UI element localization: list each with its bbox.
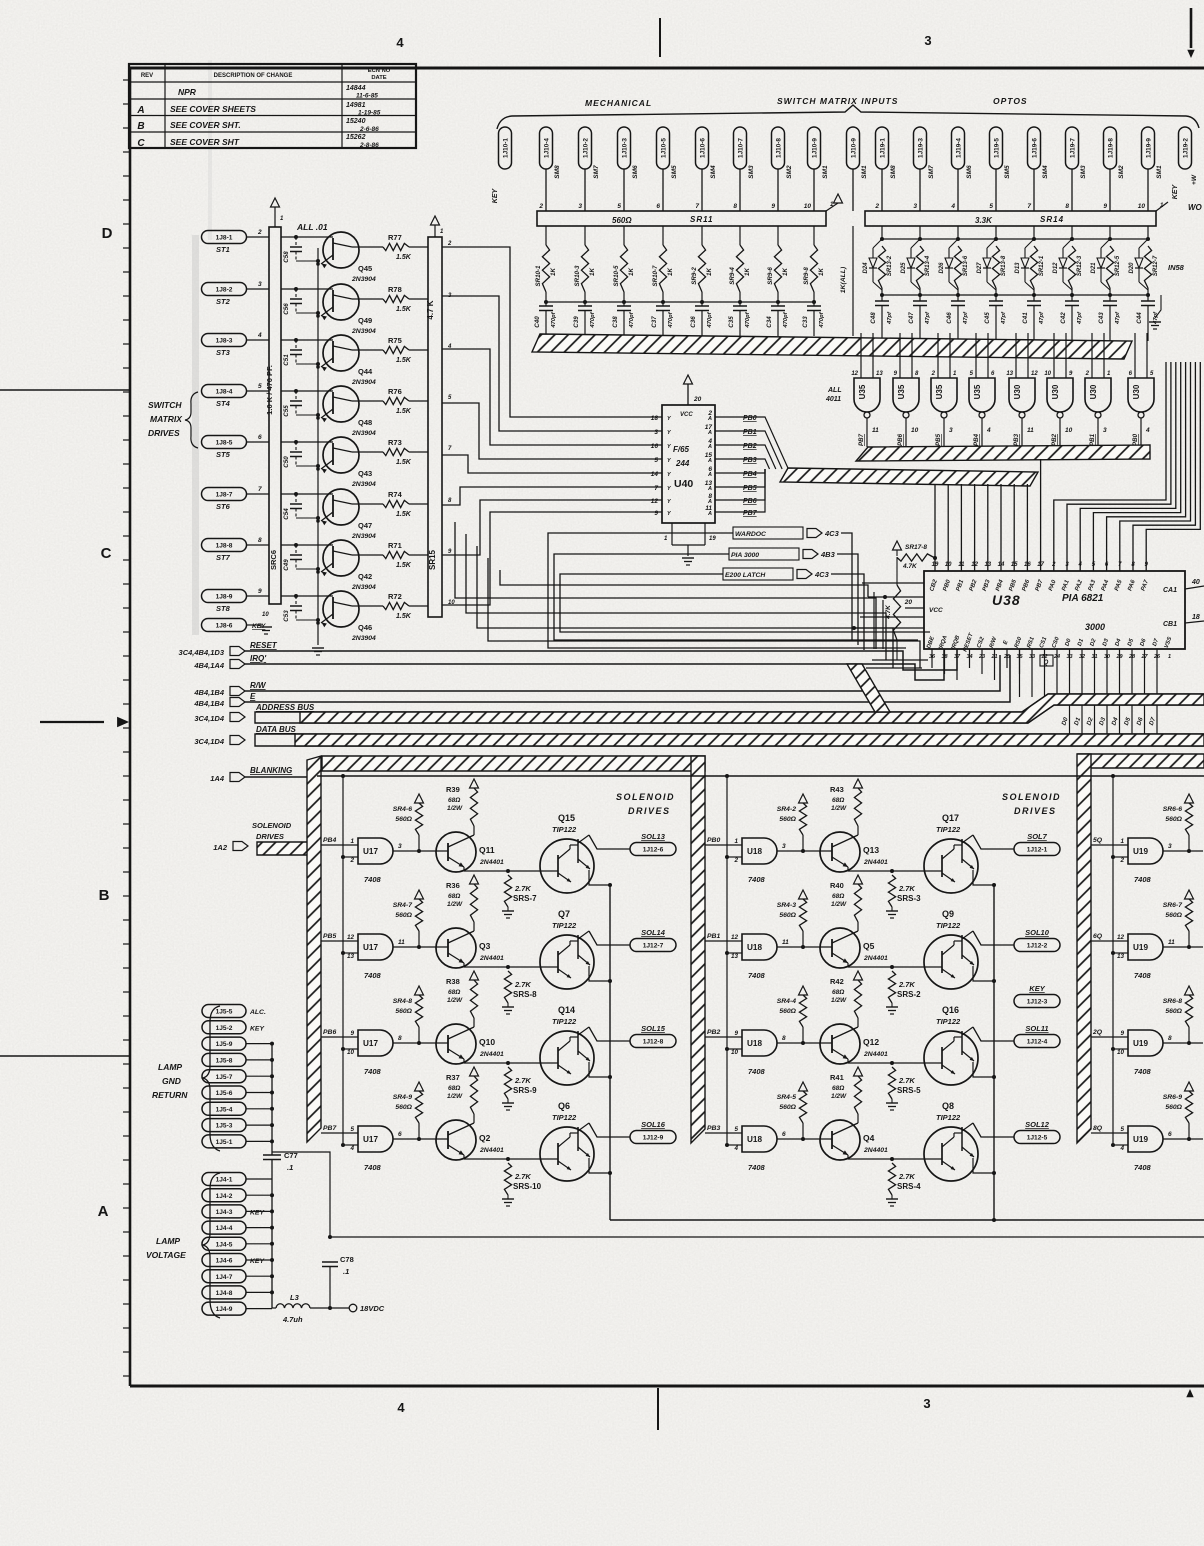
svg-text:1: 1 <box>734 838 738 845</box>
svg-text:2.7K: 2.7K <box>898 1076 915 1085</box>
svg-text:3C4,4B4,1D3: 3C4,4B4,1D3 <box>179 648 225 657</box>
svg-text:SR9-8: SR9-8 <box>803 267 810 285</box>
svg-text:D13: D13 <box>1015 262 1021 274</box>
svg-text:470pf: 470pf <box>551 311 557 328</box>
wire output <box>973 835 1014 849</box>
svg-text:Q49: Q49 <box>358 316 372 325</box>
svg-text:ST2: ST2 <box>216 297 231 306</box>
connector 1J5-4 <box>202 1102 246 1115</box>
svg-text:6: 6 <box>782 1131 786 1138</box>
svg-text:1J10-1: 1J10-1 <box>502 138 509 158</box>
svg-text:ST5: ST5 <box>216 450 231 459</box>
svg-text:SM6: SM6 <box>632 165 639 179</box>
wire <box>246 434 269 442</box>
svg-text:1J5-3: 1J5-3 <box>216 1123 233 1130</box>
svg-text:1J5-9: 1J5-9 <box>216 1041 233 1048</box>
svg-text:15240: 15240 <box>346 118 366 125</box>
connector 1J19-3 <box>914 127 936 179</box>
connector 1J10-8 <box>772 127 794 179</box>
wire <box>1013 484 1015 571</box>
wire <box>737 469 765 487</box>
svg-text:2N3904: 2N3904 <box>351 533 376 540</box>
bus ADDRESS BUS (hatched) <box>255 694 1204 723</box>
svg-text:1J4-6: 1J4-6 <box>216 1258 233 1265</box>
svg-text:PB7: PB7 <box>323 1125 337 1132</box>
svg-text:2N4401: 2N4401 <box>863 859 888 866</box>
wire <box>1109 169 1111 211</box>
resistor R76 1.5K <box>352 387 452 415</box>
svg-text:SM2: SM2 <box>786 165 793 179</box>
signal flag DATA BUS <box>194 725 296 746</box>
svg-text:12: 12 <box>731 934 739 941</box>
gate U35 (4011) <box>893 333 919 418</box>
resistor R74 1.5K <box>352 490 452 518</box>
svg-text:10: 10 <box>1138 203 1146 210</box>
svg-text:2.7K: 2.7K <box>898 980 915 989</box>
svg-text:1J8-5: 1J8-5 <box>216 440 233 447</box>
resistor SR10-3 1K <box>574 226 596 292</box>
wire base <box>281 595 333 597</box>
svg-text:3: 3 <box>924 33 931 48</box>
svg-text:2N4401: 2N4401 <box>479 1147 504 1154</box>
svg-text:DRIVES: DRIVES <box>148 428 180 438</box>
wire <box>464 966 558 968</box>
transistor Q17 TIP122 <box>924 813 994 893</box>
svg-text:5: 5 <box>617 203 621 210</box>
svg-text:RESET: RESET <box>250 641 278 650</box>
svg-text:470pf: 470pf <box>668 311 674 328</box>
svg-text:7408: 7408 <box>1134 875 1152 884</box>
svg-text:SOL11: SOL11 <box>1025 1024 1048 1033</box>
wire gate output <box>1013 418 1034 447</box>
capacitor C78 .1 <box>322 1255 354 1310</box>
svg-text:C38: C38 <box>612 316 619 328</box>
svg-text:REV: REV <box>141 73 153 79</box>
svg-text:B: B <box>137 121 144 132</box>
svg-text:1K(ALL): 1K(ALL) <box>840 266 847 293</box>
wire row input 8Q <box>1091 1125 1128 1133</box>
svg-text:1/2W: 1/2W <box>447 1093 463 1100</box>
wire <box>464 870 558 872</box>
gate U19 7408 <box>1128 838 1172 884</box>
U38 pin D5 <box>1127 637 1136 660</box>
connector 1J8-8 <box>202 539 247 563</box>
svg-text:Q3: Q3 <box>479 941 491 951</box>
wire output <box>589 1123 630 1137</box>
svg-text:BLANKING: BLANKING <box>250 766 292 775</box>
junction CB2 / SR17-8 <box>933 556 937 560</box>
U38 pin 16 PB6 <box>1022 562 1032 592</box>
svg-text:SRS-3: SRS-3 <box>897 894 921 903</box>
svg-text:7408: 7408 <box>364 875 382 884</box>
U38 pin 6 PA4 <box>1101 562 1111 592</box>
svg-text:U19: U19 <box>1133 1039 1148 1048</box>
U38 pin 9 PA7 <box>1141 562 1151 592</box>
svg-text:SWITCH MATRIX INPUTS: SWITCH MATRIX INPUTS <box>777 96 898 106</box>
svg-text:4B4,1B4: 4B4,1B4 <box>193 699 224 708</box>
svg-text:U18: U18 <box>747 1135 762 1144</box>
PIA U38 6821 <box>924 571 1185 649</box>
connector 1J12-3 KEY <box>1014 984 1060 1008</box>
wire <box>1040 459 1042 571</box>
signal flag ADDRESS BUS <box>194 703 315 723</box>
svg-text:7: 7 <box>654 485 658 492</box>
svg-text:U17: U17 <box>363 1039 378 1048</box>
svg-text:A: A <box>707 486 712 492</box>
resistor SRS-8 2.7K <box>502 965 537 1014</box>
wire <box>1031 649 1033 697</box>
svg-text:6: 6 <box>1168 1131 1172 1138</box>
svg-text:SOL13: SOL13 <box>641 832 666 841</box>
svg-text:4: 4 <box>950 203 955 210</box>
resistor SR13-2 1K <box>878 246 893 288</box>
svg-text:PB1: PB1 <box>707 933 720 940</box>
resistor network SR15 4.7K <box>426 237 442 617</box>
wire <box>341 951 358 960</box>
svg-text:C42: C42 <box>1060 312 1067 324</box>
wire PA bundle <box>1107 362 1186 571</box>
svg-text:1K: 1K <box>818 268 825 276</box>
svg-text:10: 10 <box>347 1049 355 1056</box>
U40 pin 6 PB4 <box>707 466 757 478</box>
diode D21 <box>1091 237 1112 290</box>
wire <box>701 169 703 211</box>
svg-text:PB1: PB1 <box>1089 433 1096 446</box>
U38 pin 13 PB3 <box>982 562 992 592</box>
svg-text:1J12-2: 1J12-2 <box>1027 943 1048 950</box>
svg-text:560Ω: 560Ω <box>395 912 412 919</box>
svg-text:4.7uh: 4.7uh <box>282 1315 303 1324</box>
svg-text:47pf: 47pf <box>887 311 893 325</box>
wire <box>974 484 976 571</box>
svg-text:SM7: SM7 <box>928 165 935 179</box>
wire <box>701 292 703 302</box>
svg-text:1J4-2: 1J4-2 <box>216 1193 233 1200</box>
svg-text:PB2: PB2 <box>1051 433 1058 446</box>
svg-text:1/2W: 1/2W <box>447 901 463 908</box>
svg-text:R76: R76 <box>388 387 402 396</box>
wire <box>777 169 779 211</box>
wire base <box>281 493 333 495</box>
diode D27 <box>977 237 998 290</box>
connector 1J4-9 <box>202 1302 246 1315</box>
svg-text:13: 13 <box>1006 371 1013 377</box>
transistor Q42 2N3904 <box>316 540 376 591</box>
svg-text:CA1: CA1 <box>1163 587 1177 594</box>
svg-text:47pf: 47pf <box>1077 311 1083 325</box>
svg-text:4B4,1B4: 4B4,1B4 <box>193 688 224 697</box>
svg-text:7408: 7408 <box>1134 1163 1152 1172</box>
svg-text:1J4-8: 1J4-8 <box>216 1290 233 1297</box>
svg-text:KEY: KEY <box>250 1258 265 1265</box>
svg-text:10: 10 <box>731 1049 739 1056</box>
svg-text:13: 13 <box>731 953 739 960</box>
diode D26 <box>939 237 960 290</box>
gate U30 (4011) <box>1085 333 1111 418</box>
wire <box>1044 649 1046 697</box>
capacitor C33 470pf <box>802 300 825 336</box>
signal flag BLANKING <box>210 766 292 783</box>
svg-text:1K: 1K <box>667 268 674 276</box>
svg-text:1J10-8: 1J10-8 <box>775 138 782 158</box>
wire <box>554 554 918 640</box>
wire <box>995 169 997 211</box>
svg-text:1J8-7: 1J8-7 <box>216 492 233 499</box>
svg-text:C46: C46 <box>946 312 953 324</box>
svg-text:SM8: SM8 <box>554 165 561 179</box>
capacitor C56 .01 <box>283 287 320 315</box>
connector 1J10-9 <box>808 127 830 179</box>
svg-text:MATRIX: MATRIX <box>150 414 183 424</box>
svg-text:PB7: PB7 <box>743 510 758 517</box>
capacitor C42 47pf <box>1060 288 1083 341</box>
wire gate output <box>973 418 991 447</box>
svg-text:C48: C48 <box>870 312 877 324</box>
svg-text:2N4401: 2N4401 <box>863 955 888 962</box>
svg-text:Q48: Q48 <box>358 418 372 427</box>
connector 1J12-2 SOL10 <box>1014 928 1060 952</box>
wire <box>246 332 269 340</box>
svg-text:LAMP: LAMP <box>156 1236 180 1246</box>
capacitor C45 47pf <box>984 288 1007 341</box>
resistor SR17-8 4.7K <box>893 541 935 570</box>
connector 1J8-2 <box>202 283 247 307</box>
svg-text:7: 7 <box>695 203 699 210</box>
wire <box>464 1062 558 1064</box>
svg-text:1K: 1K <box>550 268 557 276</box>
resistor SR4-7 560 <box>393 890 424 949</box>
svg-text:1J4-5: 1J4-5 <box>216 1241 233 1248</box>
bus solenoid frame left bank2 (hatched) <box>691 756 705 1143</box>
svg-text:470pf: 470pf <box>783 311 789 328</box>
svg-text:12: 12 <box>1117 934 1125 941</box>
svg-text:4: 4 <box>257 332 262 339</box>
svg-text:SEE COVER SHT.: SEE COVER SHT. <box>170 120 241 130</box>
wire <box>246 1108 272 1110</box>
svg-text:4B3: 4B3 <box>820 550 836 559</box>
wire <box>1006 649 1008 668</box>
svg-text:SRS-9: SRS-9 <box>513 1086 537 1095</box>
svg-text:C: C <box>101 545 112 562</box>
svg-text:1.5K: 1.5K <box>396 459 412 466</box>
wire <box>777 850 832 852</box>
svg-text:1/2W: 1/2W <box>447 805 463 812</box>
svg-text:1/2W: 1/2W <box>447 997 463 1004</box>
U38 pin D0 <box>1064 637 1072 660</box>
svg-text:SR4-9: SR4-9 <box>393 1094 412 1101</box>
svg-text:SR6-7: SR6-7 <box>1163 902 1183 909</box>
wire D7 <box>1148 649 1157 736</box>
svg-text:7: 7 <box>258 486 262 493</box>
svg-text:A: A <box>707 444 712 450</box>
U40 pin 8 PB6 <box>707 493 757 505</box>
svg-text:WO: WO <box>1188 203 1203 212</box>
transistor Q13 2N4401 <box>820 832 888 872</box>
wire <box>393 946 448 948</box>
zone divider B/A <box>0 1055 130 1057</box>
svg-text:68Ω: 68Ω <box>448 1085 460 1092</box>
wire <box>1163 946 1203 948</box>
svg-text:7408: 7408 <box>364 1067 382 1076</box>
svg-text:8: 8 <box>1168 1035 1172 1042</box>
wire base <box>281 441 333 443</box>
connector 1J8-1 <box>202 231 247 255</box>
svg-text:A: A <box>707 430 712 436</box>
bus switch-row collector (hatched) <box>532 334 1132 359</box>
svg-text:DRIVES: DRIVES <box>628 806 671 816</box>
U40 pin 18 <box>651 415 672 422</box>
svg-text:SR4-7: SR4-7 <box>393 902 413 909</box>
svg-text:16: 16 <box>651 443 659 450</box>
node rail optos caps <box>882 294 1148 296</box>
wire <box>777 1042 832 1044</box>
connector 1J12-1 SOL7 <box>1014 832 1060 856</box>
transistor Q49 2N3904 <box>316 284 376 335</box>
zone divider D/C <box>0 389 130 391</box>
svg-text:SOLENOID: SOLENOID <box>252 821 292 830</box>
svg-text:TIP122: TIP122 <box>552 921 577 930</box>
svg-text:1/2W: 1/2W <box>831 997 847 1004</box>
resistor 4.7K pullup <box>885 557 901 660</box>
svg-text:2N3904: 2N3904 <box>351 379 376 386</box>
svg-text:SR4-4: SR4-4 <box>777 998 796 1005</box>
svg-text:1J8-9: 1J8-9 <box>216 594 233 601</box>
resistor R38 68 ohm <box>446 971 479 1027</box>
capacitor C36 470pf <box>690 300 713 336</box>
connector 1J12-8 SOL15 <box>630 1024 676 1048</box>
svg-text:1J4-1: 1J4-1 <box>216 1177 233 1184</box>
svg-text:U35: U35 <box>897 384 906 399</box>
wire <box>1111 951 1128 960</box>
label SOLENOID DRIVES <box>1002 792 1061 816</box>
wire <box>246 1140 272 1142</box>
svg-text:1: 1 <box>350 838 354 845</box>
U38 pin R/W <box>989 636 999 660</box>
wire <box>934 484 936 571</box>
U40 pin 15 PB3 <box>705 452 757 464</box>
svg-text:TIP122: TIP122 <box>552 1017 577 1026</box>
svg-text:ST8: ST8 <box>216 604 231 613</box>
connector 1J19-2 (KEY) <box>1172 127 1198 199</box>
label LAMP VOLTAGE <box>146 1173 220 1318</box>
svg-text:Q16: Q16 <box>942 1005 959 1015</box>
wire <box>1111 1143 1128 1152</box>
connector 1J4-6 <box>202 1254 246 1267</box>
capacitor C48 47pf <box>870 288 893 341</box>
connector 1J19-1 <box>876 127 898 179</box>
svg-text:TIP122: TIP122 <box>936 825 961 834</box>
svg-text:SM4: SM4 <box>710 165 717 179</box>
bus U40 PB0-PB7 (hatched) <box>780 468 1038 486</box>
capacitor C38 470pf <box>612 300 635 336</box>
svg-text:8Q: 8Q <box>1093 1125 1103 1132</box>
svg-text:68Ω: 68Ω <box>832 797 844 804</box>
svg-text:PB0: PB0 <box>743 415 757 422</box>
wire <box>341 1047 358 1056</box>
svg-text:11: 11 <box>398 939 405 946</box>
svg-text:1A4: 1A4 <box>210 774 225 783</box>
svg-text:Q: Q <box>1044 660 1049 666</box>
wire <box>947 484 949 571</box>
svg-text:7408: 7408 <box>364 1163 382 1172</box>
svg-text:Q4: Q4 <box>863 1133 875 1143</box>
svg-text:ST4: ST4 <box>216 399 231 408</box>
svg-text:10: 10 <box>945 562 952 568</box>
svg-text:SR12-7: SR12-7 <box>1153 255 1159 276</box>
transistor Q15 TIP122 <box>540 813 610 893</box>
connector 1J12-9 SOL16 <box>630 1120 676 1144</box>
wire row input PB7 <box>321 1125 358 1133</box>
svg-text:9: 9 <box>734 1030 738 1037</box>
svg-text:1J10-7: 1J10-7 <box>737 138 744 158</box>
svg-text:1J12-8: 1J12-8 <box>643 1039 664 1046</box>
svg-text:A: A <box>707 458 712 464</box>
wire <box>246 1259 272 1261</box>
U38 pin 14 PB4 <box>995 562 1005 592</box>
wire <box>1071 169 1073 211</box>
svg-text:5Q: 5Q <box>1093 837 1103 844</box>
wire solenoid frame bottom <box>610 1219 1204 1221</box>
svg-text:1J19-1: 1J19-1 <box>879 138 886 158</box>
wire PA bundle <box>1080 362 1176 571</box>
capacitor C54 .01 <box>283 492 320 520</box>
wire <box>737 417 788 469</box>
svg-text:PB3: PB3 <box>707 1125 720 1132</box>
wire <box>813 292 815 302</box>
wire <box>246 1194 272 1196</box>
svg-text:R43: R43 <box>830 785 844 794</box>
wire row input 2Q <box>1091 1029 1128 1037</box>
wire D6 <box>1135 649 1144 736</box>
svg-text:560Ω: 560Ω <box>395 1008 412 1015</box>
svg-text:3: 3 <box>923 1396 930 1411</box>
svg-text:4: 4 <box>1078 562 1083 568</box>
wire output <box>973 1123 1014 1137</box>
svg-text:10: 10 <box>804 203 812 210</box>
svg-text:5: 5 <box>734 1126 738 1133</box>
svg-text:Q15: Q15 <box>558 813 575 823</box>
svg-text:20: 20 <box>693 396 702 403</box>
svg-text:IN58: IN58 <box>1168 263 1185 272</box>
svg-text:2.7K: 2.7K <box>898 884 915 893</box>
wire gate input rail <box>726 776 728 1145</box>
svg-text:2N3904: 2N3904 <box>351 635 376 642</box>
label SWITCH MATRIX DRIVES <box>148 392 198 448</box>
wire <box>881 169 883 211</box>
transistor Q6 TIP122 <box>540 1101 610 1181</box>
svg-text:SR4-2: SR4-2 <box>777 806 796 813</box>
connector 1J8-4 <box>202 385 247 409</box>
wire <box>246 1243 272 1245</box>
connector 1J19-6 <box>1028 127 1050 179</box>
svg-text:4B4,1A4: 4B4,1A4 <box>193 661 224 670</box>
resistor SRS-7 2.7K <box>502 869 537 918</box>
capacitor C43 47pf <box>1098 288 1121 341</box>
svg-text:SOLENOID: SOLENOID <box>616 792 675 802</box>
svg-text:ST7: ST7 <box>216 553 231 562</box>
svg-text:R74: R74 <box>388 490 403 499</box>
svg-text:1J8-1: 1J8-1 <box>216 235 233 242</box>
capacitor C53 .01 <box>283 594 320 622</box>
svg-text:ALL .01: ALL .01 <box>296 222 328 232</box>
svg-text:7408: 7408 <box>748 1067 766 1076</box>
svg-text:18VDC: 18VDC <box>360 1304 385 1313</box>
capacitor C47 47pf <box>908 288 931 341</box>
svg-text:1J12-6: 1J12-6 <box>643 847 664 854</box>
svg-text:18: 18 <box>1192 614 1200 621</box>
transistor Q48 2N3904 <box>316 386 376 437</box>
svg-text:1/2W: 1/2W <box>831 805 847 812</box>
